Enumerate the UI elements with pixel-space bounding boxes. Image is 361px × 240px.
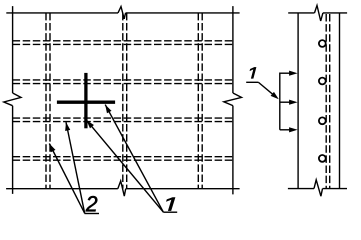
leader 1a (to cross horizontal bar): [105, 105, 163, 213]
label 1 (right): [250, 67, 256, 78]
bracket arrowhead middle: [289, 100, 298, 105]
fastener cross horizontal bar: [57, 101, 115, 104]
arrowhead leader-1-right: [271, 92, 279, 99]
label 2 underline: [85, 213, 100, 215]
rail line pair 3 (dashed): [13, 118, 233, 122]
screw head 1: [319, 40, 326, 47]
bracket arrow bottom: [280, 129, 291, 131]
arrowhead 2a: [49, 144, 55, 153]
leader 2b (to rail pair 3): [66, 122, 85, 213]
right edge break: [224, 93, 242, 106]
arrowhead 1b: [87, 120, 94, 128]
left panel top edge: [6, 12, 239, 14]
bottom edge break: [118, 181, 126, 196]
fastener cross vertical bar: [84, 73, 87, 128]
leader 1b (to cross vertical bar): [87, 120, 164, 212]
side panel left edge: [297, 13, 299, 189]
label 1 right underline: [246, 81, 258, 83]
side panel seam line pair (dashed): [326, 14, 330, 189]
stud line pair 2 (dashed): [123, 13, 127, 189]
left edge break: [4, 93, 21, 106]
stud line pair 1 (dashed): [46, 13, 50, 189]
top edge break: [118, 7, 126, 19]
side panel right edge: [339, 13, 341, 189]
bracket arrowhead top: [289, 71, 298, 76]
leader 2a (to stud pair 1): [49, 144, 84, 214]
leader from label 1 to bracket: [259, 82, 276, 96]
left panel bottom edge: [6, 188, 240, 190]
side panel bottom edge: [288, 188, 347, 190]
side panel top break: [315, 5, 323, 21]
side panel top edge: [288, 12, 347, 14]
bracket line: [279, 73, 281, 130]
side panel bottom break: [314, 180, 323, 196]
left panel right edge: [232, 6, 234, 194]
label 2: [86, 196, 98, 211]
bracket arrow top: [280, 72, 291, 74]
arrowhead 2b: [65, 122, 70, 131]
screw head 4: [319, 155, 326, 162]
arrowhead 1a: [105, 105, 111, 114]
screw head 3: [319, 117, 326, 124]
bracket arrowhead bottom: [289, 127, 298, 132]
screw head 2: [319, 78, 326, 85]
rail line pair 2 (dashed): [13, 80, 233, 84]
bracket arrow middle: [280, 101, 291, 103]
left panel left edge: [12, 6, 14, 194]
rail line pair 1 (dashed): [13, 41, 233, 45]
label 1 (bottom): [167, 198, 176, 211]
rail line pair 4 (dashed): [13, 157, 233, 161]
label 1 underline: [163, 211, 177, 213]
stud line pair 3 (dashed): [198, 13, 202, 189]
